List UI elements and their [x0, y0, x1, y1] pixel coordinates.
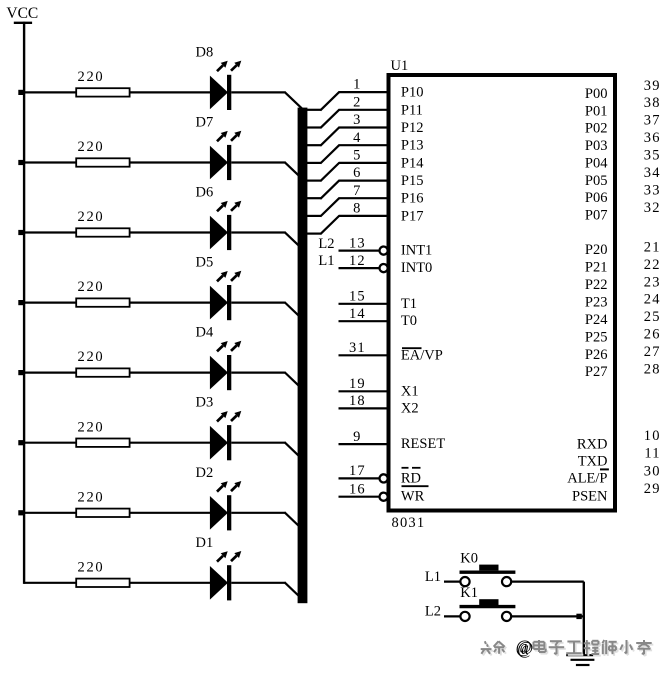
svg-text:X1: X1 — [401, 383, 419, 399]
wire LED D5 to bus — [231, 302, 285, 304]
svg-text:1: 1 — [353, 77, 360, 93]
resistor 220 (D6 branch) — [76, 228, 129, 236]
svg-text:WR: WR — [401, 489, 425, 505]
svg-text:P02: P02 — [585, 121, 608, 137]
pin 19 wire (X1) — [339, 390, 389, 392]
resistor 220 (D7 branch) — [76, 158, 129, 166]
wire LED D8 to bus — [231, 91, 285, 93]
pin 3 wire (P12) — [339, 126, 388, 128]
svg-text:22: 22 — [644, 257, 661, 273]
resistor 220 (D8 branch) — [76, 88, 129, 96]
wire bus stub pin 4 — [305, 162, 321, 164]
wire VCC to resistor (D8 branch) — [24, 91, 76, 93]
wire diagonal D3 to bus — [284, 442, 302, 459]
svg-text:21: 21 — [644, 239, 661, 255]
svg-text:220: 220 — [78, 279, 105, 295]
svg-text:220: 220 — [78, 209, 105, 225]
svg-text:D6: D6 — [196, 185, 214, 201]
junction dot VCC rail row D2 — [18, 510, 23, 515]
wire LED D2 to bus — [231, 512, 285, 514]
watermark 头条@电子工程师小李 — [481, 637, 654, 659]
svg-text:33: 33 — [644, 182, 661, 198]
wire bus stub pin 5 — [305, 180, 321, 182]
wire resistor to LED D8 — [130, 91, 211, 93]
wire bus stub pin 7 — [305, 215, 321, 217]
svg-text:14: 14 — [349, 306, 366, 322]
svg-text:P15: P15 — [401, 173, 424, 189]
svg-text:D4: D4 — [196, 325, 214, 341]
overline P (ALE/P) — [600, 468, 609, 470]
svg-text:36: 36 — [644, 130, 661, 146]
svg-text:9: 9 — [353, 429, 360, 445]
svg-text:38: 38 — [644, 95, 661, 111]
svg-text:P06: P06 — [585, 190, 608, 206]
svg-text:10: 10 — [644, 428, 661, 444]
pin 6 wire (P15) — [339, 180, 388, 182]
resistor 220 (D4 branch) — [76, 368, 129, 376]
svg-text:P20: P20 — [585, 242, 608, 258]
svg-text:VCC: VCC — [6, 5, 38, 22]
pin 14 wire (T0) — [339, 320, 389, 322]
wire VCC to resistor (D1 branch) — [24, 582, 76, 584]
svg-text:P07: P07 — [585, 208, 608, 224]
svg-text:K1: K1 — [460, 585, 478, 601]
svg-text:P16: P16 — [401, 191, 424, 207]
wire VCC to resistor (D6 branch) — [24, 231, 76, 233]
svg-text:220: 220 — [78, 419, 105, 435]
svg-text:EA/VP: EA/VP — [401, 347, 443, 363]
wire VCC to resistor (D2 branch) — [24, 512, 76, 514]
wire LED D3 to bus — [231, 442, 285, 444]
wire diagonal pin 4 — [320, 145, 339, 164]
svg-text:T0: T0 — [401, 313, 417, 329]
inversion bubble WR — [380, 493, 388, 501]
switch K1 bar — [460, 605, 516, 608]
power symbol VCC bar — [14, 22, 32, 24]
svg-text:P23: P23 — [585, 295, 608, 311]
svg-text:27: 27 — [644, 344, 661, 360]
resistor 220 (D1 branch) — [76, 579, 129, 587]
LED D3 — [210, 411, 241, 460]
pin 15 wire (T1) — [339, 303, 389, 305]
svg-text:13: 13 — [349, 235, 366, 251]
svg-text:P17: P17 — [401, 208, 424, 224]
LED D8 — [210, 61, 241, 110]
wire diagonal D6 to bus — [284, 232, 302, 249]
op chip U1 8031 body — [389, 75, 616, 511]
wire L1 to K0 — [444, 580, 461, 582]
svg-text:3: 3 — [353, 112, 360, 128]
LED D5 — [210, 271, 241, 320]
junction dot VCC rail row D8 — [18, 90, 23, 95]
svg-text:17: 17 — [349, 463, 366, 479]
resistor 220 (D2 branch) — [76, 509, 129, 517]
svg-text:2: 2 — [353, 94, 360, 110]
wire resistor to LED D5 — [130, 302, 211, 304]
switch K1 terminal left — [460, 612, 469, 621]
pin 8 wire (P17) — [339, 215, 388, 217]
LED D2 — [210, 481, 241, 530]
pin 18 wire (X2) — [339, 407, 389, 409]
svg-text:220: 220 — [78, 139, 105, 155]
svg-text:12: 12 — [349, 253, 366, 269]
pin 1 wire (P10) — [339, 91, 388, 93]
svg-text:P27: P27 — [585, 364, 608, 380]
inversion bubble RD — [380, 474, 388, 482]
svg-text:5: 5 — [353, 148, 360, 164]
svg-text:D3: D3 — [196, 395, 214, 411]
wire LED D7 to bus — [231, 161, 285, 163]
wire diagonal pin 3 — [320, 127, 339, 146]
wire LED D6 to bus — [231, 231, 285, 233]
svg-text:37: 37 — [644, 113, 661, 129]
svg-text:35: 35 — [644, 148, 661, 164]
LED D1 — [210, 551, 241, 600]
pin 17 wire (RD) — [339, 477, 380, 479]
svg-text:220: 220 — [78, 69, 105, 85]
svg-text:25: 25 — [644, 309, 661, 325]
wire bus stub pin 2 — [305, 126, 321, 128]
wire ground rail vertical — [583, 582, 585, 655]
wire bus stub pin 3 — [305, 144, 321, 146]
switch K0 terminal right — [502, 577, 511, 586]
wire resistor to LED D3 — [130, 442, 211, 444]
wire VCC to resistor (D3 branch) — [24, 442, 76, 444]
svg-text:26: 26 — [644, 327, 661, 343]
inversion bubble INT0 — [380, 264, 388, 272]
junction dot VCC rail row D5 — [18, 300, 23, 305]
svg-text:RESET: RESET — [401, 436, 445, 452]
wire diagonal D5 to bus — [284, 302, 302, 319]
bus bar (LED common) — [298, 108, 308, 604]
wire L2 to K1 — [444, 615, 461, 617]
resistor 220 (D5 branch) — [76, 298, 129, 306]
ground — [566, 654, 599, 656]
svg-text:7: 7 — [353, 183, 360, 199]
junction dot VCC rail row D4 — [18, 370, 23, 375]
svg-text:L1: L1 — [425, 569, 441, 585]
svg-text:11: 11 — [644, 446, 660, 462]
svg-text:6: 6 — [353, 165, 360, 181]
inversion bubble INT1 — [380, 247, 388, 255]
svg-text:P05: P05 — [585, 173, 608, 189]
wire diagonal pin 5 — [320, 163, 339, 182]
switch K0 terminal left — [460, 577, 469, 586]
svg-text:16: 16 — [349, 482, 366, 498]
switch K0 cap — [479, 565, 498, 571]
svg-text:L2: L2 — [425, 604, 441, 620]
svg-text:24: 24 — [644, 292, 661, 308]
wire diagonal pin 7 — [320, 198, 339, 217]
svg-text:P04: P04 — [585, 155, 608, 171]
svg-text:8031: 8031 — [392, 515, 426, 531]
switch K1 terminal right — [502, 612, 511, 621]
wire resistor to LED D1 — [130, 582, 211, 584]
svg-text:D1: D1 — [196, 535, 214, 551]
wire diagonal D2 to bus — [284, 512, 302, 529]
svg-text:L2: L2 — [318, 236, 334, 252]
wire bus stub pin 6 — [305, 197, 321, 199]
svg-text:P13: P13 — [401, 138, 424, 154]
switch K1 cap — [479, 599, 498, 605]
wire diagonal D1 to bus — [284, 582, 302, 599]
wire diagonal D8 to bus — [284, 92, 302, 109]
svg-text:P22: P22 — [585, 277, 608, 293]
svg-text:220: 220 — [78, 489, 105, 505]
svg-text:P12: P12 — [401, 120, 424, 136]
svg-text:X2: X2 — [401, 400, 419, 416]
junction dot VCC rail row D3 — [18, 440, 23, 445]
svg-text:28: 28 — [644, 361, 661, 377]
wire K0 to ground rail — [511, 580, 584, 582]
junction dot VCC rail row D7 — [18, 160, 23, 165]
svg-text:P01: P01 — [585, 103, 608, 119]
svg-text:30: 30 — [644, 463, 661, 479]
svg-text:P11: P11 — [401, 102, 423, 118]
svg-text:15: 15 — [349, 289, 366, 305]
svg-text:P00: P00 — [585, 86, 608, 102]
wire diagonal pin 1 — [320, 92, 339, 111]
pin 9 wire (RESET) — [339, 443, 389, 445]
svg-text:D8: D8 — [196, 44, 214, 60]
svg-text:P14: P14 — [401, 155, 424, 171]
svg-text:T1: T1 — [401, 296, 417, 312]
wire bus stub pin 8 — [305, 233, 321, 235]
svg-text:D7: D7 — [196, 115, 214, 131]
pin 2 wire (P11) — [339, 109, 388, 111]
svg-text:L1: L1 — [318, 253, 334, 269]
wire diagonal D7 to bus — [284, 162, 302, 179]
wire diagonal pin 2 — [320, 109, 339, 128]
svg-text:PSEN: PSEN — [572, 489, 608, 505]
svg-text:U1: U1 — [391, 58, 409, 74]
svg-text:23: 23 — [644, 274, 661, 290]
svg-text:@: @ — [516, 637, 532, 657]
overline EA — [402, 347, 422, 349]
wire VCC to resistor (D5 branch) — [24, 302, 76, 304]
svg-text:4: 4 — [353, 130, 361, 146]
wire resistor to LED D6 — [130, 231, 211, 233]
svg-text:TXD: TXD — [578, 453, 608, 469]
svg-text:39: 39 — [644, 78, 661, 94]
svg-text:P10: P10 — [401, 85, 424, 101]
overline RD — [402, 467, 409, 469]
svg-text:220: 220 — [78, 349, 105, 365]
svg-text:INT0: INT0 — [401, 260, 432, 276]
pin 5 wire (P14) — [339, 162, 388, 164]
svg-text:19: 19 — [349, 376, 366, 392]
wire diagonal pin 6 — [320, 180, 339, 199]
pin 12 wire (INT0) — [339, 267, 380, 269]
resistor 220 (D3 branch) — [76, 439, 129, 447]
wire resistor to LED D4 — [130, 372, 211, 374]
svg-text:K0: K0 — [460, 551, 478, 567]
junction dot VCC rail row D6 — [18, 230, 23, 235]
wire VCC to resistor (D7 branch) — [24, 161, 76, 163]
wire K1 to ground rail — [511, 615, 584, 617]
svg-text:31: 31 — [349, 340, 366, 356]
wire VCC rail vertical — [23, 22, 25, 584]
junction dot K1/ground rail — [576, 614, 581, 619]
wire VCC to resistor (D4 branch) — [24, 372, 76, 374]
svg-text:INT1: INT1 — [401, 243, 432, 259]
svg-text:P26: P26 — [585, 347, 608, 363]
wire LED D1 to bus — [231, 582, 285, 584]
wire resistor to LED D7 — [130, 161, 211, 163]
svg-text:RXD: RXD — [577, 436, 608, 452]
wire diagonal pin 8 — [320, 216, 339, 235]
svg-text:RD: RD — [401, 470, 421, 486]
svg-text:P03: P03 — [585, 138, 608, 154]
svg-text:32: 32 — [644, 200, 661, 216]
svg-text:34: 34 — [644, 165, 661, 181]
svg-text:D2: D2 — [196, 465, 214, 481]
svg-text:8: 8 — [353, 201, 360, 217]
overline WR — [402, 485, 429, 487]
svg-text:P25: P25 — [585, 329, 608, 345]
svg-text:ALE/P: ALE/P — [567, 471, 607, 487]
svg-text:D5: D5 — [196, 255, 214, 271]
pin 7 wire (P16) — [339, 197, 388, 199]
pin 4 wire (P13) — [339, 144, 388, 146]
pin 31 wire (EA/VP) — [339, 354, 389, 356]
svg-text:220: 220 — [78, 559, 105, 575]
wire diagonal D4 to bus — [284, 372, 302, 389]
pin 16 wire (WR) — [339, 496, 380, 498]
LED D6 — [210, 201, 241, 250]
switch K0 bar — [460, 571, 516, 574]
svg-text:P24: P24 — [585, 312, 608, 328]
svg-text:P21: P21 — [585, 260, 608, 276]
svg-text:29: 29 — [644, 481, 661, 497]
pin 13 wire (INT1) — [339, 250, 380, 252]
LED D7 — [210, 131, 241, 180]
wire resistor to LED D2 — [130, 512, 211, 514]
LED D4 — [210, 341, 241, 390]
wire LED D4 to bus — [231, 372, 285, 374]
svg-text:18: 18 — [349, 393, 366, 409]
wire bus stub pin 1 — [305, 109, 321, 111]
